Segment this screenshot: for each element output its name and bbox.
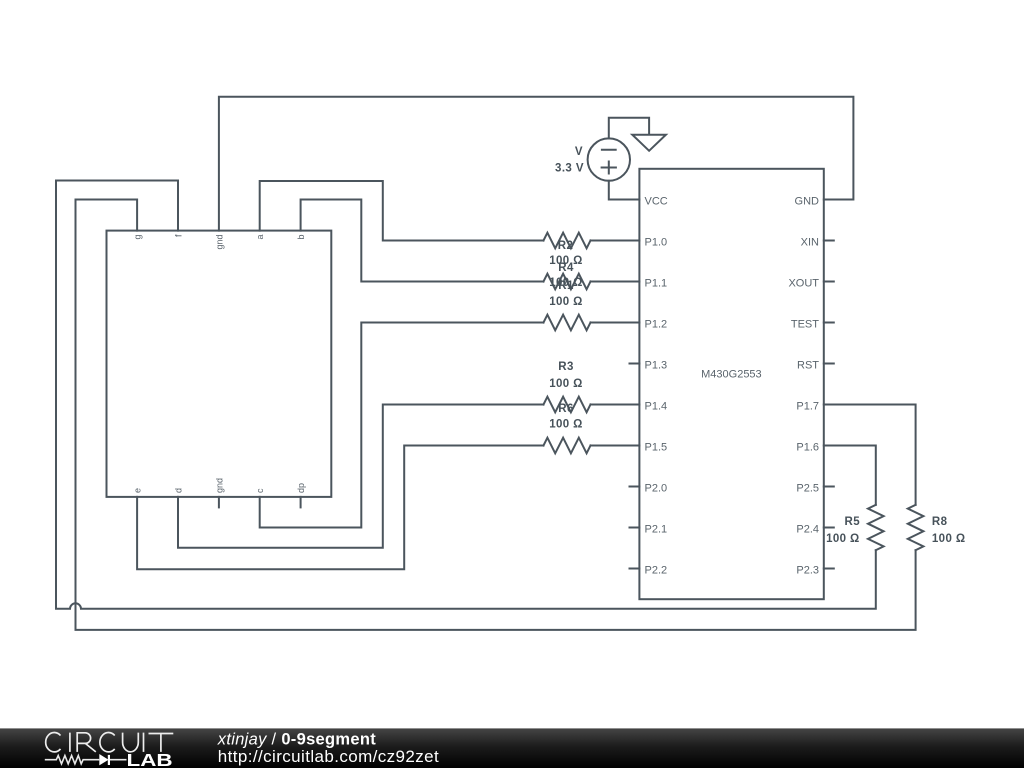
svg-text:R4: R4 xyxy=(558,262,574,274)
svg-text:b: b xyxy=(296,235,306,240)
svg-text:P2.4: P2.4 xyxy=(796,524,819,536)
resistor R7 xyxy=(544,438,591,454)
U1 pin stub P1.3 xyxy=(630,363,640,365)
svg-text:VCC: VCC xyxy=(645,196,668,208)
svg-text:gnd: gnd xyxy=(214,235,224,250)
wire c to R3 resistor (P1.2) xyxy=(260,323,544,528)
svg-text:100 Ω: 100 Ω xyxy=(549,378,583,390)
svg-text:3.3 V: 3.3 V xyxy=(555,162,584,174)
svg-text:XIN: XIN xyxy=(801,237,819,249)
svg-text:XOUT: XOUT xyxy=(788,278,819,290)
svg-text:P2.2: P2.2 xyxy=(645,565,668,577)
U1 pin stub XOUT xyxy=(824,281,834,283)
resistor R5 xyxy=(868,505,884,550)
wire gnd-top net: display gnd pin to U1 GND xyxy=(219,97,854,231)
op-amp U1 M430G2553 box xyxy=(639,169,823,599)
svg-text:GND: GND xyxy=(795,196,820,208)
svg-text:P1.0: P1.0 xyxy=(645,237,668,249)
wire a to R2 (P1.0) xyxy=(260,181,544,241)
wire P1.5 resistor to U1 xyxy=(591,445,640,447)
U1 pin stub RST xyxy=(824,363,834,365)
svg-text:d: d xyxy=(174,488,184,493)
svg-text:TEST: TEST xyxy=(791,319,819,331)
ground xyxy=(632,135,666,151)
svg-text:P2.3: P2.3 xyxy=(796,565,819,577)
svg-text:P1.3: P1.3 xyxy=(645,360,668,372)
svg-text:g: g xyxy=(133,235,143,240)
svg-text:100 Ω: 100 Ω xyxy=(549,419,583,431)
U1 pin stub P2.5 xyxy=(824,486,834,488)
CircuitLab logo text CIRCUIT (drawn) xyxy=(46,732,174,751)
wire R6 to U1 P1.4 xyxy=(591,404,640,406)
voltage source V1 xyxy=(588,138,630,180)
svg-text:V: V xyxy=(575,146,583,158)
svg-text:R8: R8 xyxy=(932,516,948,528)
svg-text:a: a xyxy=(255,235,265,240)
wire e to P1.5 resistor xyxy=(137,446,543,570)
wire R5 top to U1 P1.6 xyxy=(824,446,876,505)
7-segment display DS1 box xyxy=(107,231,332,497)
U1 pin stub P2.1 xyxy=(630,527,640,529)
resistor R3 xyxy=(544,315,591,331)
U1 pin stub XIN xyxy=(824,240,834,242)
svg-text:c: c xyxy=(255,488,265,493)
wire R4 to U1 P1.1 xyxy=(591,281,640,283)
svg-text:100 Ω: 100 Ω xyxy=(932,533,966,545)
svg-text:dp: dp xyxy=(296,483,306,493)
wire b to R4/R1 (P1.1) xyxy=(301,200,544,282)
svg-text:P2.0: P2.0 xyxy=(645,483,668,495)
resistor R2 xyxy=(544,233,591,249)
svg-text:P2.1: P2.1 xyxy=(645,524,668,536)
svg-text:R1: R1 xyxy=(558,280,574,292)
svg-text:R6: R6 xyxy=(558,403,574,415)
svg-text:LAB: LAB xyxy=(127,750,173,768)
svg-text:R5: R5 xyxy=(844,516,860,528)
resistor R6 xyxy=(544,397,591,413)
U1 pin stub P2.2 xyxy=(630,568,640,570)
U1 pin stub P2.3 xyxy=(824,568,834,570)
resistor R4 (overlapped with R1) xyxy=(544,274,591,290)
svg-text:P1.7: P1.7 xyxy=(796,401,819,413)
CircuitLab logo resistor-diode glyph xyxy=(45,756,127,764)
wire P1.2 resistor to U1 xyxy=(591,322,640,324)
wire V1 plus to U1 VCC xyxy=(609,181,640,200)
U1 pin stub TEST xyxy=(824,322,834,324)
svg-text:M430G2553: M430G2553 xyxy=(701,369,762,381)
svg-text:P1.5: P1.5 xyxy=(645,442,668,454)
svg-text:gnd: gnd xyxy=(214,478,224,493)
svg-text:P1.2: P1.2 xyxy=(645,319,668,331)
svg-text:RST: RST xyxy=(797,360,819,372)
svg-text:100 Ω: 100 Ω xyxy=(549,296,583,308)
svg-text:R2: R2 xyxy=(558,240,574,252)
wire g to R8 bottom to U1 P1.7 xyxy=(76,200,916,630)
svg-text:P2.5: P2.5 xyxy=(796,483,819,495)
svg-text:R3: R3 xyxy=(558,361,574,373)
U1 pin stub P2.4 xyxy=(824,527,834,529)
DS1 pin stub dp xyxy=(300,497,302,508)
DS1 pin stub gnd bottom xyxy=(218,497,220,508)
wire R8 top to U1 P1.7 xyxy=(824,405,916,505)
svg-text:http://circuitlab.com/cz92zet: http://circuitlab.com/cz92zet xyxy=(218,747,439,766)
svg-text:P1.6: P1.6 xyxy=(796,442,819,454)
wire V1 minus to ground xyxy=(609,118,649,139)
svg-text:xtinjay / 0-9segment: xtinjay / 0-9segment xyxy=(217,731,376,749)
svg-text:P1.4: P1.4 xyxy=(645,401,668,413)
svg-text:P1.1: P1.1 xyxy=(645,278,668,290)
resistor R8 xyxy=(908,505,924,550)
U1 pin stub P2.0 xyxy=(630,486,640,488)
wire f to R5 bottom (with hop) to U1 P1.6 xyxy=(56,181,876,609)
wire R2 to U1 P1.0 xyxy=(591,240,640,242)
svg-text:e: e xyxy=(133,488,143,493)
wire d to R6 (P1.4) xyxy=(178,405,544,548)
svg-text:100 Ω: 100 Ω xyxy=(826,533,860,545)
